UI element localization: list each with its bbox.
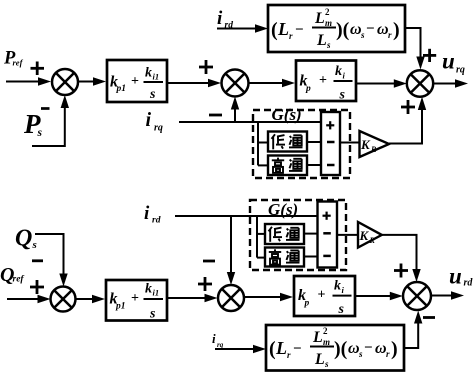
wire into high-pass top <box>258 164 268 166</box>
wire B4 to J5 <box>167 294 218 302</box>
wire J1 to block B1 <box>78 77 106 85</box>
svg-text:rd: rd <box>464 278 474 289</box>
block B1 PI controller kp1+ki1/s <box>107 60 167 102</box>
svg-text:s: s <box>338 302 345 317</box>
high-pass characters bottom <box>269 249 300 264</box>
wire into high-pass bottom <box>257 257 265 259</box>
svg-text:i: i <box>212 331 216 346</box>
summing junction J6 <box>403 282 431 310</box>
block B5 PI controller kp+ki/s <box>294 276 355 317</box>
gain triangle K_R top <box>360 131 390 157</box>
node i_rq feedback <box>146 109 163 134</box>
svg-text:p1: p1 <box>115 302 126 312</box>
svg-text:k: k <box>334 279 341 294</box>
svg-text:(: ( <box>269 338 276 360</box>
wire J6 to output <box>431 291 464 299</box>
plus sign at J5 left input <box>198 277 212 291</box>
wire high-pass to summer top <box>307 164 321 166</box>
svg-text:+: + <box>131 74 139 89</box>
svg-text:i: i <box>146 109 152 131</box>
node Q_ref <box>0 264 24 286</box>
svg-text:Q: Q <box>15 226 32 252</box>
svg-text:): ) <box>393 19 400 41</box>
node i_rd bottom <box>144 203 161 226</box>
node u_rq output <box>442 49 465 76</box>
svg-text:ω: ω <box>348 340 360 357</box>
block B3 PI controller kp+ki/s <box>296 61 356 103</box>
arrowhead into J6 top <box>412 269 420 282</box>
wire i_rq horizontal into G(s) <box>179 121 320 123</box>
low-pass filter box top <box>268 132 307 152</box>
block B4 PI controller kp1+ki1/s <box>106 280 167 322</box>
svg-text:): ) <box>391 338 398 360</box>
node u_rd output <box>449 264 473 289</box>
svg-text:G(s): G(s) <box>272 105 302 124</box>
arrowhead into J3 top <box>416 57 424 70</box>
svg-text:rd: rd <box>152 216 161 226</box>
arrowhead into J3 bottom <box>418 97 426 110</box>
svg-text:−: − <box>293 341 302 357</box>
arrowhead into J6 bottom <box>414 311 422 324</box>
plus sign at J3 bottom input <box>401 100 415 114</box>
svg-text:r: r <box>388 30 392 40</box>
wire B6 to J6 bottom <box>404 322 418 348</box>
svg-text:p1: p1 <box>116 84 127 94</box>
wire B3 to J3 <box>356 79 407 87</box>
node i_rq bottom <box>212 331 224 349</box>
node P_s <box>23 109 43 139</box>
svg-text:L: L <box>314 351 325 368</box>
minus sign at J5 top input <box>203 260 215 263</box>
svg-text:s: s <box>360 30 365 40</box>
wire low-pass to summer bottom <box>304 233 318 235</box>
svg-text:+: + <box>131 291 139 306</box>
wire B5 to J6 <box>355 292 403 300</box>
node P_ref <box>3 49 24 69</box>
svg-text:p: p <box>304 299 310 309</box>
svg-text:L: L <box>275 338 287 358</box>
svg-text:2: 2 <box>323 326 328 336</box>
summing junction J1 <box>52 69 78 95</box>
summer rectangle S2 <box>318 202 338 268</box>
svg-text:rq: rq <box>217 341 224 349</box>
summing junction J4 <box>51 287 76 312</box>
wire branch up into J2 <box>234 107 236 122</box>
high-pass characters top <box>272 158 303 173</box>
plus sign at P_ref input <box>31 62 45 76</box>
svg-text:k: k <box>335 64 342 79</box>
svg-text:R: R <box>370 145 377 154</box>
svg-text:ω: ω <box>350 21 362 38</box>
plus sign at J3 top input <box>423 49 436 62</box>
wire high-pass to summer bottom <box>304 256 318 258</box>
svg-text:2: 2 <box>325 7 330 17</box>
wire summer to gain bottom <box>337 234 358 236</box>
wire branch down to filters bottom <box>256 216 258 258</box>
svg-text:ω: ω <box>377 21 389 38</box>
svg-text:k: k <box>145 282 152 297</box>
minus sign at Q_s <box>32 259 43 262</box>
plus sign at J2 left input <box>199 60 213 74</box>
svg-text:r: r <box>289 31 293 41</box>
summer rectangle S1 <box>321 112 340 175</box>
wire B2 to J3 top <box>405 28 421 58</box>
high-pass filter box top <box>268 156 307 176</box>
arrowhead into J2 bottom <box>231 97 239 110</box>
svg-text:i: i <box>217 8 223 29</box>
wire into low-pass top <box>258 142 268 144</box>
wire B1 to summing junction J2 <box>167 79 221 87</box>
svg-text:s: s <box>149 87 156 102</box>
compensation block B6 <box>266 325 404 371</box>
svg-text:i1: i1 <box>153 72 160 82</box>
svg-text:s: s <box>358 349 363 359</box>
wire low-pass to summer top <box>307 141 321 143</box>
svg-text:K: K <box>360 137 371 152</box>
arrowhead into J5 top <box>227 272 235 285</box>
svg-text:−: − <box>366 21 375 37</box>
svg-text:s: s <box>149 307 156 322</box>
low-pass characters bottom <box>269 227 300 242</box>
svg-text:G(s): G(s) <box>268 200 298 219</box>
gain triangle K_R bottom <box>358 222 382 248</box>
svg-text:)(: )( <box>334 338 348 360</box>
svg-text:ω: ω <box>375 340 387 357</box>
svg-text:u: u <box>449 264 462 289</box>
minus sign at J6 bottom input <box>423 316 435 319</box>
compensation block B2 <box>268 5 405 52</box>
wire J2 to block B3 <box>249 79 296 87</box>
wire Q_ref to J4 <box>7 295 51 303</box>
wire J5 to block B5 <box>244 293 293 301</box>
svg-text:rq: rq <box>154 123 163 134</box>
svg-text:(: ( <box>271 19 278 41</box>
svg-text:L: L <box>314 10 325 27</box>
node Q_s <box>15 226 37 252</box>
wire P_s to J1 <box>32 106 65 146</box>
svg-text:+: + <box>319 73 327 88</box>
svg-text:i1: i1 <box>153 288 160 298</box>
svg-text:K: K <box>359 228 370 243</box>
svg-text:p: p <box>305 84 311 94</box>
minus sign at P_s <box>41 107 50 110</box>
wire gain to J6 top <box>382 235 417 271</box>
wire i_rq into compensation block B6 <box>215 345 266 353</box>
wire Q_s to J4 <box>35 234 64 275</box>
wire J3 to output <box>433 79 468 87</box>
high-pass filter box bottom <box>265 248 304 267</box>
low-pass filter box bottom <box>265 224 304 244</box>
wire gain to J3 bottom <box>389 108 422 144</box>
svg-text:i: i <box>144 203 150 224</box>
summing junction J2 <box>222 70 249 97</box>
wire P_ref to summing junction <box>6 77 51 85</box>
wire J4 to block B4 <box>76 295 106 303</box>
svg-text:)(: )( <box>336 19 350 41</box>
svg-text:s: s <box>32 239 37 251</box>
wire branch down to filters top <box>257 122 259 165</box>
arrowhead into J4 top <box>59 274 67 287</box>
node i_rd top <box>217 8 233 31</box>
wire summer to gain top <box>340 142 360 144</box>
wire branch down into J5 <box>230 216 232 273</box>
svg-text:s: s <box>324 359 329 369</box>
svg-text:rq: rq <box>456 65 465 76</box>
svg-text:s: s <box>339 88 346 103</box>
low-pass characters top <box>272 134 303 149</box>
svg-text:r: r <box>386 349 390 359</box>
dashed box G(s) top <box>253 110 350 178</box>
svg-text:L: L <box>312 329 323 346</box>
svg-text:L: L <box>316 32 327 49</box>
svg-text:ref: ref <box>13 275 25 285</box>
dashed box G(s) bottom <box>250 200 346 270</box>
svg-text:r: r <box>287 350 291 360</box>
arrowhead into J1 bottom <box>61 95 69 108</box>
svg-text:ref: ref <box>13 58 24 68</box>
svg-text:R: R <box>369 236 376 245</box>
plus sign at Q_ref input <box>30 280 44 294</box>
svg-text:u: u <box>442 49 455 74</box>
wire into low-pass bottom <box>257 233 265 235</box>
wire i_rd horizontal into G(s) bottom <box>175 215 318 217</box>
svg-text:−: − <box>295 22 304 38</box>
svg-text:s: s <box>37 127 43 139</box>
wire i_rd into compensation block B2 <box>217 24 268 32</box>
svg-text:k: k <box>145 66 152 81</box>
summing junction J5 <box>218 285 244 311</box>
svg-text:L: L <box>277 19 289 39</box>
svg-text:−: − <box>364 340 373 356</box>
minus sign at J2 bottom input <box>209 114 222 117</box>
summing junction J3 <box>407 70 433 96</box>
plus sign at J6 top input <box>394 264 408 278</box>
svg-text:s: s <box>326 40 331 50</box>
svg-text:+: + <box>318 288 326 303</box>
